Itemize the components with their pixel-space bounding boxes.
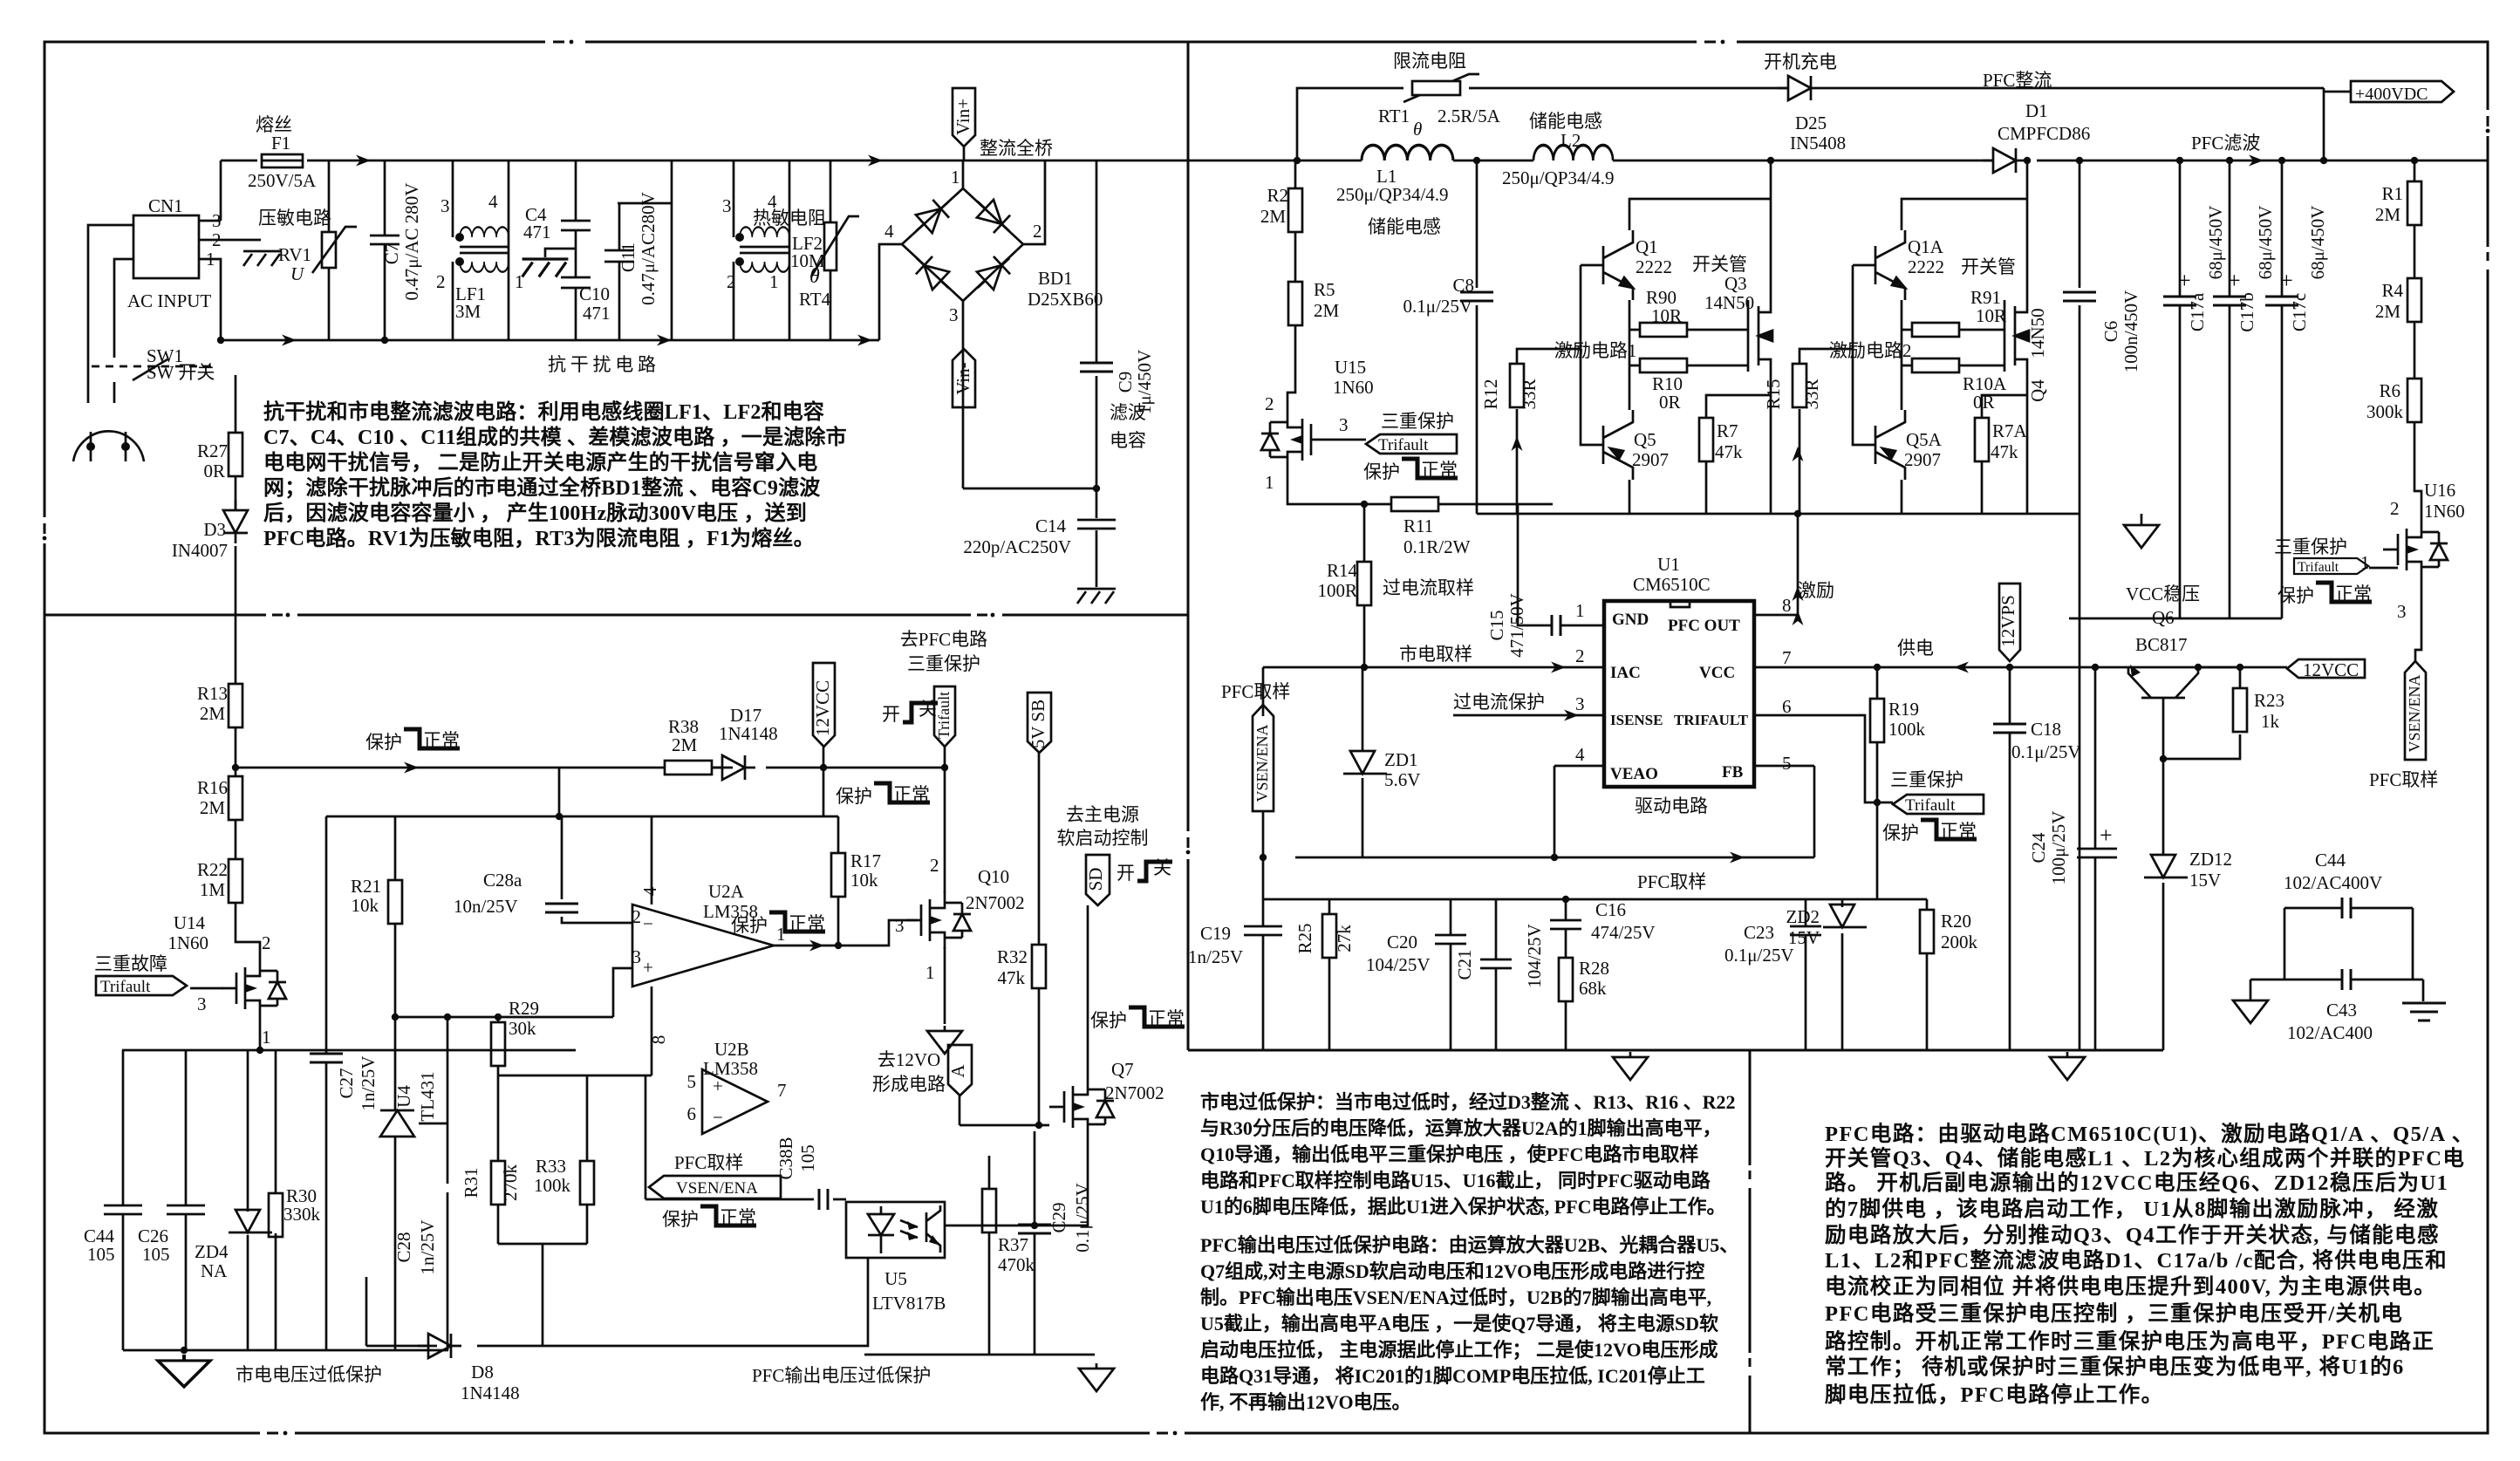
svg-text:3: 3 xyxy=(949,304,959,325)
svg-text:Trifault: Trifault xyxy=(935,692,953,739)
svg-text:路。 开机后副电源输出的12VCC电压经Q6、ZD12稳压后: 路。 开机后副电源输出的12VCC电压经Q6、ZD12稳压后为U1 xyxy=(1825,1170,2448,1195)
svg-text:储能电感: 储能电感 xyxy=(1368,216,1441,237)
svg-text:2M: 2M xyxy=(1314,300,1340,321)
svg-text:VCC: VCC xyxy=(1699,664,1735,682)
svg-text:7: 7 xyxy=(777,1080,787,1101)
svg-text:0.47μ/AC280V: 0.47μ/AC280V xyxy=(638,192,659,305)
svg-text:C44: C44 xyxy=(2315,850,2346,870)
svg-text:1: 1 xyxy=(2360,552,2370,573)
svg-text:C15: C15 xyxy=(1486,610,1507,640)
svg-text:激励: 激励 xyxy=(1798,580,1834,601)
svg-text:250μ/QP34/4.9: 250μ/QP34/4.9 xyxy=(1336,184,1449,205)
svg-text:1n/25V: 1n/25V xyxy=(1188,946,1243,967)
svg-text:6: 6 xyxy=(1782,696,1792,717)
svg-text:2: 2 xyxy=(212,229,222,250)
svg-text:2: 2 xyxy=(632,906,642,927)
svg-text:电电网干扰信号， 二是防止开关电源产生的干扰信号窜入电: 电电网干扰信号， 二是防止开关电源产生的干扰信号窜入电 xyxy=(263,450,817,474)
svg-text:Q4: Q4 xyxy=(2027,379,2048,402)
svg-text:10k: 10k xyxy=(352,895,379,916)
svg-text:过电流保护: 过电流保护 xyxy=(1453,692,1545,713)
svg-text:R22: R22 xyxy=(197,859,228,880)
svg-text:Q1: Q1 xyxy=(1636,236,1658,257)
svg-text:PFC取样: PFC取样 xyxy=(674,1152,743,1173)
svg-text:+: + xyxy=(643,957,653,978)
svg-text:R32: R32 xyxy=(997,946,1028,967)
svg-text:A: A xyxy=(947,1064,968,1078)
svg-text:FB: FB xyxy=(1722,763,1744,782)
svg-text:4: 4 xyxy=(884,221,894,242)
svg-text:LTV817B: LTV817B xyxy=(872,1293,946,1314)
svg-text:PFC取样: PFC取样 xyxy=(2369,769,2438,790)
svg-text:100n/450V: 100n/450V xyxy=(2120,290,2141,373)
svg-text:471/50V: 471/50V xyxy=(1506,593,1527,658)
svg-text:U1的6脚电压降低，据此U1进入保护状态, PFC电路停止工: U1的6脚电压降低，据此U1进入保护状态, PFC电路停止工作。 xyxy=(1200,1196,1726,1218)
svg-text:0R: 0R xyxy=(203,461,225,481)
svg-text:1N60: 1N60 xyxy=(1333,377,1374,398)
svg-text:100μ/25V: 100μ/25V xyxy=(2048,811,2069,885)
svg-text:励电路放大后，分别推动Q3、Q4工作于开关状态, 与储能电感: 励电路放大后，分别推动Q3、Q4工作于开关状态, 与储能电感 xyxy=(1825,1222,2440,1247)
svg-text:U5: U5 xyxy=(884,1268,907,1289)
svg-text:0.1μ/25V: 0.1μ/25V xyxy=(1072,1183,1093,1253)
svg-text:102/AC400V: 102/AC400V xyxy=(2284,872,2382,893)
svg-text:抗干扰电路: 抗干扰电路 xyxy=(548,354,656,375)
svg-text:路控制。开机正常工作时三重保护电压为高电平，PFC电路正: 路控制。开机正常工作时三重保护电压为高电平，PFC电路正 xyxy=(1825,1328,2435,1354)
svg-text:2907: 2907 xyxy=(1904,449,1941,470)
svg-text:C28: C28 xyxy=(393,1232,414,1262)
svg-text:2M: 2M xyxy=(200,797,226,818)
svg-text:270k: 270k xyxy=(500,1164,521,1202)
svg-text:CM6510C: CM6510C xyxy=(1633,574,1711,595)
svg-text:2: 2 xyxy=(1033,221,1042,242)
svg-text:R5: R5 xyxy=(1314,279,1335,300)
svg-text:1μ/450V: 1μ/450V xyxy=(1134,350,1155,414)
svg-text:C29: C29 xyxy=(1048,1202,1069,1232)
svg-text:限流电阻: 限流电阻 xyxy=(1393,51,1466,72)
svg-text:C9: C9 xyxy=(1115,372,1136,393)
svg-text:0.1μ/25V: 0.1μ/25V xyxy=(1724,945,1794,966)
svg-text:1M: 1M xyxy=(200,879,226,900)
svg-text:VSEN/ENA: VSEN/ENA xyxy=(676,1179,758,1198)
svg-text:68μ/450V: 68μ/450V xyxy=(2307,206,2328,280)
svg-text:1N60: 1N60 xyxy=(167,932,208,953)
svg-text:C18: C18 xyxy=(2031,719,2061,740)
svg-text:3: 3 xyxy=(1339,414,1349,435)
svg-text:ZD4: ZD4 xyxy=(195,1241,229,1262)
svg-text:市电取样: 市电取样 xyxy=(1399,644,1472,665)
svg-text:1k: 1k xyxy=(2261,711,2280,732)
svg-text:U4: U4 xyxy=(393,1085,414,1108)
svg-text:RT1: RT1 xyxy=(1378,106,1410,126)
svg-text:PFC输出电压过低保护: PFC输出电压过低保护 xyxy=(752,1365,931,1386)
svg-text:102/AC400: 102/AC400 xyxy=(2287,1022,2373,1043)
svg-text:471: 471 xyxy=(523,222,551,242)
svg-text:4: 4 xyxy=(639,886,660,896)
svg-text:6: 6 xyxy=(687,1103,697,1124)
svg-text:的7脚供电 ，该电路启动工作， U1从8脚输出激励脉冲， 经: 的7脚供电 ，该电路启动工作， U1从8脚输出激励脉冲， 经激 xyxy=(1825,1196,2439,1221)
svg-text:ZD2: ZD2 xyxy=(1786,906,1820,927)
svg-text:C7、C4、C10 、C11组成的共模 、差模滤波电路 ，一: C7、C4、C10 、C11组成的共模 、差模滤波电路 ，一是滤除市 xyxy=(263,425,847,449)
svg-text:R33: R33 xyxy=(536,1156,566,1177)
svg-text:R4: R4 xyxy=(2381,280,2403,301)
svg-text:2: 2 xyxy=(262,932,271,953)
svg-text:8: 8 xyxy=(1782,595,1792,616)
svg-text:U2B: U2B xyxy=(714,1039,749,1060)
svg-text:D25: D25 xyxy=(1795,113,1827,133)
svg-text:电容: 电容 xyxy=(1110,430,1146,451)
svg-text:VSEN/ENA: VSEN/ENA xyxy=(2406,675,2423,753)
svg-text:R15: R15 xyxy=(1763,379,1784,409)
svg-text:10M: 10M xyxy=(790,250,825,271)
svg-text:R37: R37 xyxy=(998,1234,1028,1255)
svg-text:热敏电阻: 热敏电阻 xyxy=(753,208,826,229)
svg-text:C8: C8 xyxy=(1452,275,1474,296)
svg-text:R27: R27 xyxy=(197,440,228,461)
svg-text:100k: 100k xyxy=(1888,719,1926,740)
svg-text:TL431: TL431 xyxy=(417,1071,438,1121)
svg-text:F1: F1 xyxy=(271,133,290,154)
svg-text:PFC整流: PFC整流 xyxy=(1983,70,2052,91)
svg-text:Q10: Q10 xyxy=(978,866,1009,887)
svg-text:100k: 100k xyxy=(534,1175,571,1196)
svg-text:2M: 2M xyxy=(672,734,698,755)
svg-text:市电过低保护：当市电过低时，经过D3整流 、R13、R16: 市电过低保护：当市电过低时，经过D3整流 、R13、R16 、R22 xyxy=(1200,1091,1736,1113)
svg-text:C16: C16 xyxy=(1595,899,1626,920)
svg-text:1n/25V: 1n/25V xyxy=(358,1056,379,1111)
svg-text:ZD1: ZD1 xyxy=(1384,749,1418,770)
svg-text:+400VDC: +400VDC xyxy=(2355,85,2428,104)
svg-text:L1、L2和PFC整流滤波电路D1、C17a/b /c配合,: L1、L2和PFC整流滤波电路D1、C17a/b /c配合, 将供电电压和 xyxy=(1825,1247,2448,1273)
svg-text:1N4148: 1N4148 xyxy=(461,1382,520,1403)
svg-text:Q7: Q7 xyxy=(1111,1059,1134,1080)
svg-text:1: 1 xyxy=(1265,472,1274,493)
svg-text:12VCC: 12VCC xyxy=(2303,659,2359,680)
svg-text:−: − xyxy=(643,913,653,934)
svg-text:0.47μ/AC 280V: 0.47μ/AC 280V xyxy=(401,183,422,301)
svg-text:330k: 330k xyxy=(283,1204,321,1225)
svg-text:R11: R11 xyxy=(1403,515,1433,536)
svg-text:0.1μ/25V: 0.1μ/25V xyxy=(1403,296,1472,317)
svg-text:IN4007: IN4007 xyxy=(172,540,228,561)
svg-text:C11: C11 xyxy=(618,242,639,272)
svg-text:VEAO: VEAO xyxy=(1610,765,1658,783)
svg-text:市电电压过低保护: 市电电压过低保护 xyxy=(236,1364,382,1385)
svg-text:C38B: C38B xyxy=(775,1137,796,1179)
svg-text:U2A: U2A xyxy=(708,881,745,902)
svg-text:+: + xyxy=(2100,823,2113,848)
svg-text:R29: R29 xyxy=(509,998,539,1019)
svg-text:0.1μ/25V: 0.1μ/25V xyxy=(2011,741,2081,762)
svg-text:47k: 47k xyxy=(998,967,1026,988)
svg-text:R6: R6 xyxy=(2379,380,2400,401)
svg-text:0R: 0R xyxy=(1659,392,1681,413)
svg-text:R13: R13 xyxy=(197,683,228,704)
svg-text:CN1: CN1 xyxy=(148,195,183,216)
svg-text:5.6V: 5.6V xyxy=(1384,769,1420,790)
svg-text:0R: 0R xyxy=(1973,392,1995,413)
svg-text:驱动电路: 驱动电路 xyxy=(1635,795,1708,816)
svg-text:3: 3 xyxy=(2397,601,2407,622)
svg-text:U1: U1 xyxy=(1657,554,1680,575)
svg-text:1: 1 xyxy=(925,962,935,983)
svg-text:激励电路2: 激励电路2 xyxy=(1829,340,1912,361)
svg-text:R25: R25 xyxy=(1294,923,1315,953)
svg-text:105: 105 xyxy=(87,1244,115,1265)
svg-text:D25XB60: D25XB60 xyxy=(1028,289,1103,310)
svg-text:2: 2 xyxy=(727,271,736,292)
svg-text:2: 2 xyxy=(1265,393,1274,414)
svg-text:2907: 2907 xyxy=(1632,449,1669,470)
svg-text:CMPFCD86: CMPFCD86 xyxy=(1998,123,2090,144)
svg-text:471: 471 xyxy=(583,303,611,324)
svg-text:抗干扰和市电整流滤波电路：利用电感线圈LF1、LF2和电容: 抗干扰和市电整流滤波电路：利用电感线圈LF1、LF2和电容 xyxy=(263,399,824,424)
svg-text:27k: 27k xyxy=(1334,925,1355,952)
svg-text:7: 7 xyxy=(1782,647,1792,668)
svg-text:68μ/450V: 68μ/450V xyxy=(2255,206,2276,280)
svg-text:68μ/450V: 68μ/450V xyxy=(2205,206,2226,280)
svg-text:250μ/QP34/4.9: 250μ/QP34/4.9 xyxy=(1502,167,1615,188)
svg-text:2M: 2M xyxy=(1260,206,1287,227)
svg-text:储能电感: 储能电感 xyxy=(1529,111,1602,132)
svg-text:47k: 47k xyxy=(1991,441,2018,462)
svg-text:开关管Q3、Q4、储能电感L1 、L2为核心组成两个并联的P: 开关管Q3、Q4、储能电感L1 、L2为核心组成两个并联的PFC电 xyxy=(1825,1145,2465,1171)
svg-text:R12: R12 xyxy=(1480,379,1501,409)
svg-text:2: 2 xyxy=(436,271,446,292)
svg-text:2M: 2M xyxy=(200,703,226,724)
svg-text:15V: 15V xyxy=(2189,870,2221,891)
svg-text:供电: 供电 xyxy=(1897,638,1934,659)
svg-text:D1: D1 xyxy=(2025,100,2048,121)
svg-text:R7A: R7A xyxy=(1992,420,2028,441)
svg-text:R19: R19 xyxy=(1888,699,1919,720)
svg-text:R23: R23 xyxy=(2254,690,2284,711)
svg-text:PFC电路受三重保护电压控制 ，三重保护电压受开/关机电: PFC电路受三重保护电压控制 ，三重保护电压受开/关机电 xyxy=(1825,1301,2403,1326)
svg-text:C10: C10 xyxy=(579,283,610,304)
svg-text:10n/25V: 10n/25V xyxy=(454,896,518,917)
svg-text:2N7002: 2N7002 xyxy=(1105,1082,1164,1103)
svg-text:C17a: C17a xyxy=(2187,292,2208,331)
svg-text:作, 不再输出12VO电压。: 作, 不再输出12VO电压。 xyxy=(1200,1391,1411,1413)
svg-text:Q3: Q3 xyxy=(1724,273,1747,294)
svg-text:电流校正为同相位 并将供电电压提升到400V, 为主电源供电: 电流校正为同相位 并将供电电压提升到400V, 为主电源供电。 xyxy=(1825,1273,2436,1299)
svg-text:TRIFAULT: TRIFAULT xyxy=(1674,712,1749,728)
svg-text:PFC滤波: PFC滤波 xyxy=(2191,133,2260,154)
svg-text:1: 1 xyxy=(951,167,960,188)
svg-text:−: − xyxy=(713,1107,723,1128)
svg-text:LM358: LM358 xyxy=(703,1058,758,1079)
svg-text:R2: R2 xyxy=(1267,185,1288,206)
svg-text:2N7002: 2N7002 xyxy=(966,892,1025,913)
svg-text:105: 105 xyxy=(142,1244,170,1265)
svg-text:5V SB: 5V SB xyxy=(1028,700,1048,748)
svg-text:C28a: C28a xyxy=(483,870,522,891)
svg-text:C17b: C17b xyxy=(2237,292,2257,332)
svg-text:5: 5 xyxy=(687,1071,697,1092)
svg-text:2: 2 xyxy=(930,855,939,876)
svg-text:制。PFC输出电压VSEN/ENA过低时，U2B的7脚输出高: 制。PFC输出电压VSEN/ENA过低时，U2B的7脚输出高电平, xyxy=(1200,1287,1711,1308)
svg-text:过电流取样: 过电流取样 xyxy=(1383,577,1474,598)
svg-text:Vin+: Vin+ xyxy=(953,99,973,135)
svg-text:47k: 47k xyxy=(1715,441,1743,462)
svg-text:4: 4 xyxy=(488,191,498,212)
svg-text:2.5R/5A: 2.5R/5A xyxy=(1438,106,1501,126)
svg-text:220p/AC250V: 220p/AC250V xyxy=(963,536,1071,557)
svg-text:14N50: 14N50 xyxy=(1704,292,1754,313)
svg-text:300k: 300k xyxy=(2366,401,2404,422)
svg-text:L2: L2 xyxy=(1560,130,1581,151)
svg-text:三重保护: 三重保护 xyxy=(2274,536,2347,557)
svg-text:AC INPUT: AC INPUT xyxy=(127,290,211,311)
svg-text:D8: D8 xyxy=(471,1362,494,1382)
svg-text:C20: C20 xyxy=(1387,932,1417,952)
svg-text:去主电源: 去主电源 xyxy=(1066,804,1139,825)
svg-text:3: 3 xyxy=(722,195,732,216)
svg-text:VCC稳压: VCC稳压 xyxy=(2126,584,2200,604)
svg-text:R16: R16 xyxy=(197,777,228,798)
svg-text:PFC输出电压过低保护电路：由运算放大器U2B、光耦合器U5: PFC输出电压过低保护电路：由运算放大器U2B、光耦合器U5、 xyxy=(1200,1234,1738,1256)
svg-text:脚电压拉低，PFC电路停止工作。: 脚电压拉低，PFC电路停止工作。 xyxy=(1825,1382,2164,1407)
svg-text:SW 开关: SW 开关 xyxy=(147,362,215,383)
svg-text:1n/25V: 1n/25V xyxy=(417,1220,438,1275)
svg-text:R7: R7 xyxy=(1717,420,1738,441)
svg-text:U15: U15 xyxy=(1335,357,1366,378)
svg-text:去12VO: 去12VO xyxy=(878,1049,940,1070)
svg-text:68k: 68k xyxy=(1579,978,1607,999)
svg-text:Q6: Q6 xyxy=(2152,607,2175,628)
svg-text:三重故障: 三重故障 xyxy=(94,953,167,974)
svg-text:去PFC电路: 去PFC电路 xyxy=(900,629,987,650)
svg-text:R21: R21 xyxy=(351,876,381,897)
svg-text:压敏电路: 压敏电路 xyxy=(258,208,331,229)
svg-text:C17c: C17c xyxy=(2289,293,2310,331)
svg-text:NA: NA xyxy=(201,1260,228,1281)
svg-text:2: 2 xyxy=(2390,498,2400,519)
svg-text:3: 3 xyxy=(632,946,642,967)
svg-text:开关管: 开关管 xyxy=(1692,254,1747,275)
svg-text:5: 5 xyxy=(1782,753,1792,774)
svg-text:100R: 100R xyxy=(1317,580,1357,601)
svg-text:2M: 2M xyxy=(2375,204,2401,225)
svg-text:12VPS: 12VPS xyxy=(1998,595,2018,647)
svg-text:12VCC: 12VCC xyxy=(812,680,833,736)
svg-text:三重保护: 三重保护 xyxy=(1890,769,1963,790)
svg-text:15V: 15V xyxy=(1788,927,1820,948)
svg-text:R20: R20 xyxy=(1941,911,1971,932)
svg-text:C24: C24 xyxy=(2028,832,2049,864)
svg-text:+: + xyxy=(2178,268,2191,293)
svg-text:IAC: IAC xyxy=(1610,664,1641,682)
svg-text:R28: R28 xyxy=(1579,958,1609,979)
svg-text:2: 2 xyxy=(1575,645,1585,666)
svg-text:10R: 10R xyxy=(1651,305,1682,326)
svg-text:104/25V: 104/25V xyxy=(1524,924,1545,988)
svg-text:470k: 470k xyxy=(998,1254,1035,1275)
svg-text:Q5A: Q5A xyxy=(1906,429,1943,450)
svg-text:200k: 200k xyxy=(1941,932,1978,952)
svg-text:启动电压拉低， 主电源据此停止工作； 二是使12VO电压形成: 启动电压拉低， 主电源据此停止工作； 二是使12VO电压形成 xyxy=(1200,1339,1718,1361)
svg-text:RV1: RV1 xyxy=(278,244,311,265)
svg-text:PFC OUT: PFC OUT xyxy=(1668,617,1740,635)
svg-text:3: 3 xyxy=(212,210,222,231)
svg-text:开机充电: 开机充电 xyxy=(1764,51,1837,72)
svg-text:Q5: Q5 xyxy=(1634,429,1656,450)
svg-text:3: 3 xyxy=(1575,693,1585,714)
svg-text:3M: 3M xyxy=(455,301,481,322)
svg-text:整流全桥: 整流全桥 xyxy=(980,138,1053,159)
svg-text:104/25V: 104/25V xyxy=(1366,954,1431,975)
svg-text:4: 4 xyxy=(1575,744,1585,765)
svg-text:+: + xyxy=(2280,268,2293,293)
svg-text:ISENSE: ISENSE xyxy=(1610,712,1663,728)
svg-text:激励电路1: 激励电路1 xyxy=(1554,340,1637,361)
svg-text:常工作； 待机或保护时三重保护电压变为低电平, 将U1的6: 常工作； 待机或保护时三重保护电压变为低电平, 将U1的6 xyxy=(1825,1354,2405,1379)
svg-text:1: 1 xyxy=(1575,600,1585,621)
svg-text:VSEN/ENA: VSEN/ENA xyxy=(1253,725,1271,802)
svg-text:1: 1 xyxy=(262,1027,271,1048)
svg-text:U16: U16 xyxy=(2424,480,2455,501)
svg-text:GND: GND xyxy=(1612,611,1649,629)
svg-text:PFC取样: PFC取样 xyxy=(1637,871,1706,892)
svg-text:软启动控制: 软启动控制 xyxy=(1057,828,1149,849)
svg-text:C6: C6 xyxy=(2100,321,2121,343)
svg-text:Q10导通，输出低电平三重保护电压 ，使PFC电路市电取样: Q10导通，输出低电平三重保护电压 ，使PFC电路市电取样 xyxy=(1200,1144,1698,1165)
svg-text:10k: 10k xyxy=(850,870,878,891)
svg-text:R1: R1 xyxy=(2381,183,2403,204)
svg-text:PFC电路。RV1为压敏电阻，RT3为限流电阻 ，F1为熔丝: PFC电路。RV1为压敏电阻，RT3为限流电阻 ，F1为熔丝。 xyxy=(263,526,815,550)
svg-text:RT4: RT4 xyxy=(799,289,831,310)
svg-text:U14: U14 xyxy=(174,912,206,933)
svg-text:C43: C43 xyxy=(2326,1000,2357,1021)
svg-text:C14: C14 xyxy=(1035,515,1067,536)
svg-text:105: 105 xyxy=(797,1144,818,1172)
svg-text:Q1A: Q1A xyxy=(1908,236,1944,257)
svg-text:1: 1 xyxy=(776,924,786,945)
svg-text:2222: 2222 xyxy=(1908,256,1944,277)
svg-text:形成电路: 形成电路 xyxy=(872,1074,946,1095)
svg-text:1N4148: 1N4148 xyxy=(719,723,778,744)
svg-text:D3: D3 xyxy=(203,519,226,540)
svg-text:1: 1 xyxy=(206,249,215,270)
svg-text:SD: SD xyxy=(1085,868,1106,891)
svg-text:与R30分压后的电压降低，运算放大器U2A的1脚输出高电平，: 与R30分压后的电压降低，运算放大器U2A的1脚输出高电平， xyxy=(1200,1117,1722,1139)
svg-text:三重保护: 三重保护 xyxy=(907,653,980,674)
svg-text:ZD12: ZD12 xyxy=(2189,849,2232,870)
svg-text:PFC电路：由驱动电路CM6510C(U1)、激励电路Q1/: PFC电路：由驱动电路CM6510C(U1)、激励电路Q1/A 、Q5/A 、 xyxy=(1825,1121,2475,1146)
svg-text:Vin-: Vin- xyxy=(953,362,973,394)
svg-text:C7: C7 xyxy=(381,243,402,265)
svg-text:U5截止，输出高电平A电压 ，一是使Q7导通， 将主电源SD: U5截止，输出高电平A电压 ，一是使Q7导通， 将主电源SD软 xyxy=(1200,1313,1718,1335)
svg-text:30k: 30k xyxy=(509,1018,536,1039)
svg-text:3: 3 xyxy=(197,993,207,1014)
svg-text:10R: 10R xyxy=(1976,305,2006,326)
svg-text:1: 1 xyxy=(769,271,779,292)
svg-text:3: 3 xyxy=(895,915,905,936)
svg-text:Q7组成,对主电源SD软启动电压和12VO电压形成电路进行控: Q7组成,对主电源SD软启动电压和12VO电压形成电路进行控 xyxy=(1200,1260,1704,1282)
svg-text:C27: C27 xyxy=(336,1068,357,1098)
svg-text:33R: 33R xyxy=(1519,379,1540,409)
svg-text:PFC取样: PFC取样 xyxy=(1221,681,1290,702)
svg-text:250V/5A: 250V/5A xyxy=(248,170,317,191)
svg-text:C23: C23 xyxy=(1744,922,1774,943)
svg-text:IN5408: IN5408 xyxy=(1790,133,1846,154)
svg-text:LM358: LM358 xyxy=(703,901,758,922)
svg-text:+: + xyxy=(2228,268,2241,293)
svg-text:开关管: 开关管 xyxy=(1961,256,2016,277)
svg-text:θ: θ xyxy=(1413,119,1422,140)
svg-text:BC817: BC817 xyxy=(2135,634,2188,655)
svg-text:8: 8 xyxy=(648,1035,669,1045)
svg-text:C19: C19 xyxy=(1200,923,1231,944)
svg-text:网；滤除干扰脉冲后的市电通过全桥BD1整流 、电容C9滤波: 网；滤除干扰脉冲后的市电通过全桥BD1整流 、电容C9滤波 xyxy=(263,475,821,500)
